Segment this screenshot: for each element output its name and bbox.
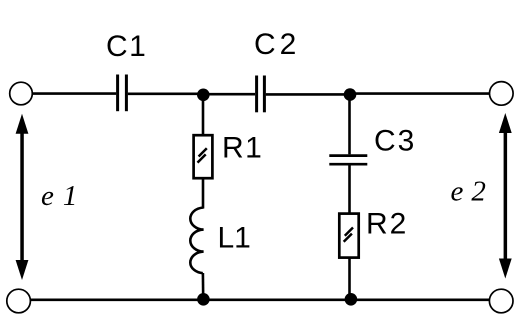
wire R1 to L1 bbox=[202, 178, 205, 208]
node B (junction C2/C3/output) bbox=[344, 88, 357, 101]
svg-text:e1: e1 bbox=[41, 180, 86, 212]
capacitor C2 bbox=[257, 76, 265, 113]
wire top rail C2 to node B bbox=[266, 93, 349, 96]
svg-text:R2: R2 bbox=[366, 207, 408, 240]
wire R2 to node D bbox=[348, 258, 351, 299]
wire L1 to node C bbox=[202, 273, 205, 299]
wire node A down to R1 bbox=[202, 95, 205, 136]
wire node B down to C3 bbox=[348, 95, 351, 154]
svg-text:e2: e2 bbox=[451, 176, 494, 208]
wire bottom rail bbox=[30, 298, 489, 301]
wire top rail left (terminal to C1) bbox=[33, 92, 117, 95]
node A (junction C1/C2/R1) bbox=[197, 89, 210, 102]
inductor L1 bbox=[190, 208, 203, 274]
capacitor C3 bbox=[329, 156, 367, 165]
node D (bottom junction right) bbox=[345, 293, 358, 306]
svg-text:L1: L1 bbox=[218, 221, 251, 254]
resistor R2 bbox=[339, 214, 358, 258]
terminal left-bottom bbox=[7, 289, 31, 313]
resistor R1 bbox=[194, 135, 213, 178]
source arrow e1 bbox=[16, 114, 29, 280]
terminal right-bottom bbox=[489, 289, 513, 313]
wire top rail node A to C2 bbox=[204, 93, 255, 96]
wire C3 to R2 bbox=[348, 166, 351, 215]
svg-text:C2: C2 bbox=[254, 28, 300, 61]
svg-text:R1: R1 bbox=[222, 132, 263, 165]
wire top rail node B to right terminal bbox=[351, 92, 489, 95]
capacitor C1 bbox=[118, 75, 127, 112]
source arrow e2 bbox=[499, 113, 512, 279]
terminal right-top bbox=[490, 82, 514, 106]
svg-text:C1: C1 bbox=[106, 30, 147, 63]
terminal left-top bbox=[10, 82, 33, 105]
svg-text:C3: C3 bbox=[374, 124, 416, 157]
wire top rail C1 to node A bbox=[128, 93, 202, 96]
node C (bottom junction left) bbox=[197, 293, 210, 306]
